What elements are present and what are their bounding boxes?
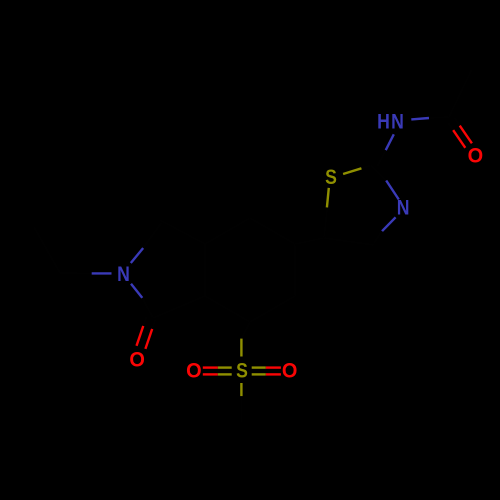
atom O lactam (129, 348, 145, 372)
svg-text:O: O (129, 348, 145, 372)
double bond C=O acetyl (448, 118, 472, 148)
svg-text:O: O (186, 359, 202, 383)
bond N3-C4 thiazole (374, 217, 396, 243)
bond NH-C(acetyl) (411, 117, 449, 119)
bond C2-NH amide (378, 134, 394, 166)
atom O acetyl (468, 144, 484, 168)
bond N2-C3 (131, 222, 162, 263)
atom S sulfonyl (236, 359, 248, 383)
svg-text:O: O (282, 359, 298, 383)
svg-text:O: O (468, 144, 484, 168)
wire thiazole dark skeleton (324, 238, 374, 245)
double bond C1=O lactam (137, 317, 156, 349)
svg-text:N: N (391, 110, 404, 134)
bond S(sulfonyl)-Caryl (240, 339, 242, 357)
double bond S=O right (252, 368, 281, 375)
atom O sulfonyl right (282, 359, 298, 383)
svg-text:N: N (117, 263, 130, 287)
atom N2 lactam (117, 263, 130, 287)
svg-text:H: H (377, 110, 390, 134)
double bond S=O left (203, 368, 232, 375)
atom S1 thiazole (325, 166, 337, 190)
svg-text:N: N (397, 196, 410, 220)
svg-text:S: S (325, 166, 337, 190)
bond S1-C2 thiazole (343, 166, 371, 175)
bond S1-C5 thiazole (324, 188, 329, 238)
svg-text:S: S (236, 359, 248, 383)
bond S(sulfonyl)-CH3 (240, 383, 242, 422)
bond C2=N3 thiazole (371, 166, 399, 200)
bond N2-CH(ethyl) (92, 272, 112, 274)
bond N2-C1 (131, 284, 153, 318)
atom N3 thiazole (397, 196, 410, 220)
wire N-ethyl dark skeleton (34, 227, 92, 273)
wire isoindoline dark skeleton (153, 218, 324, 339)
atom NH amide (377, 110, 404, 134)
wire acetyl CH3 dark (449, 70, 472, 117)
atom O sulfonyl left (186, 359, 202, 383)
